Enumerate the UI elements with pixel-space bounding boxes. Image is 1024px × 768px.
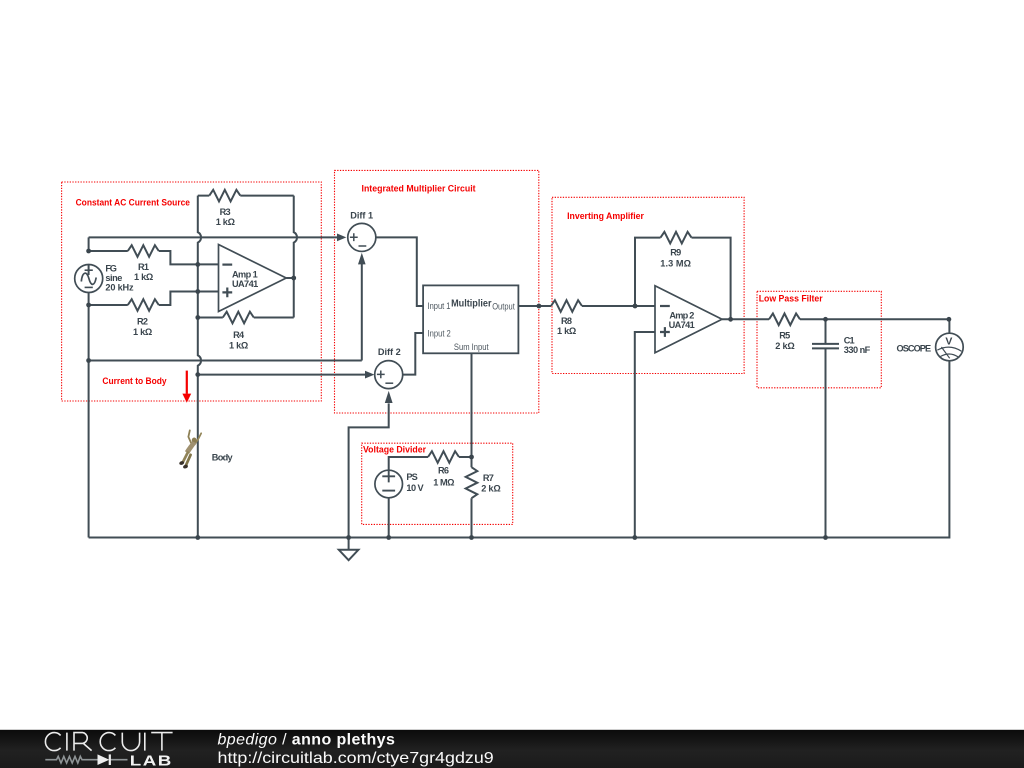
svg-text:Current to Body: Current to Body — [102, 376, 166, 386]
svg-text:UA741: UA741 — [669, 320, 695, 330]
svg-text:R3: R3 — [220, 207, 231, 217]
svg-text:Low Pass Filter: Low Pass Filter — [759, 293, 823, 303]
svg-text:2 kΩ: 2 kΩ — [775, 341, 795, 351]
svg-text:Output: Output — [492, 302, 515, 312]
svg-text:Body: Body — [212, 452, 234, 462]
svg-text:20 kHz: 20 kHz — [105, 282, 134, 292]
svg-text:R9: R9 — [670, 247, 681, 257]
svg-text:1 MΩ: 1 MΩ — [433, 477, 454, 487]
svg-text:1 kΩ: 1 kΩ — [133, 327, 152, 337]
svg-text:R5: R5 — [779, 330, 790, 340]
svg-text:Input 1: Input 1 — [428, 301, 451, 311]
svg-text:1.3 MΩ: 1.3 MΩ — [660, 259, 691, 269]
svg-text:Diff 2: Diff 2 — [378, 347, 401, 357]
svg-text:10 V: 10 V — [406, 483, 424, 493]
svg-text:R7: R7 — [483, 473, 494, 483]
svg-text:1 kΩ: 1 kΩ — [229, 340, 248, 350]
svg-text:R8: R8 — [561, 316, 572, 326]
svg-text:bpedigo / anno plethys: bpedigo / anno plethys — [218, 732, 396, 749]
svg-text:Sum Input: Sum Input — [454, 342, 489, 352]
svg-text:R2: R2 — [137, 316, 148, 326]
svg-text:1 kΩ: 1 kΩ — [134, 272, 153, 282]
svg-text:1 kΩ: 1 kΩ — [216, 217, 235, 227]
svg-text:UA741: UA741 — [232, 279, 258, 289]
svg-text:Voltage Divider: Voltage Divider — [363, 445, 426, 455]
svg-text:Amp 2: Amp 2 — [669, 311, 694, 321]
svg-text:http://circuitlab.com/ctye7gr4: http://circuitlab.com/ctye7gr4gdzu9 — [218, 750, 494, 767]
svg-text:Inverting Amplifier: Inverting Amplifier — [567, 211, 644, 221]
svg-text:OSCOPE: OSCOPE — [897, 343, 932, 353]
svg-text:V: V — [945, 335, 952, 347]
svg-text:LAB: LAB — [130, 752, 173, 768]
svg-text:Input 2: Input 2 — [428, 328, 451, 338]
svg-text:Integrated Multiplier Circuit: Integrated Multiplier Circuit — [362, 183, 476, 193]
svg-text:Multiplier: Multiplier — [451, 299, 491, 310]
svg-text:R4: R4 — [233, 330, 245, 340]
svg-text:Amp 1: Amp 1 — [232, 269, 258, 279]
svg-text:330 nF: 330 nF — [844, 345, 871, 355]
svg-text:R6: R6 — [438, 466, 449, 476]
svg-text:R1: R1 — [138, 262, 149, 272]
svg-text:Diff 1: Diff 1 — [350, 210, 373, 220]
svg-text:Constant AC Current Source: Constant AC Current Source — [76, 197, 190, 207]
svg-text:PS: PS — [406, 472, 417, 482]
svg-text:1 kΩ: 1 kΩ — [557, 326, 576, 336]
svg-text:2 kΩ: 2 kΩ — [481, 483, 501, 493]
